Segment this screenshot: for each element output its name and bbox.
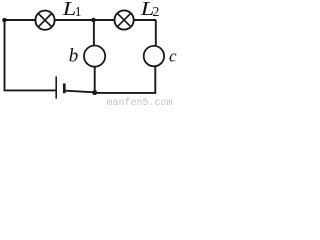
wire left wall — [4, 20, 6, 90]
wire bottom left — [4, 89, 56, 91]
wire top — [5, 19, 157, 21]
lamp L2 — [115, 10, 134, 29]
wire battery to junction — [66, 91, 95, 93]
meter b (circle) — [84, 46, 105, 67]
node bottom junction dot — [92, 90, 97, 95]
wire b riser top — [93, 20, 95, 46]
battery short plate — [63, 84, 66, 94]
svg-text:1: 1 — [75, 5, 82, 20]
lamp L1 — [35, 11, 54, 30]
svg-text:c: c — [169, 47, 177, 66]
node top junction dot — [91, 18, 96, 23]
svg-text:b: b — [69, 46, 79, 67]
svg-text:2: 2 — [152, 5, 159, 20]
svg-text:manfen5.com: manfen5.com — [107, 97, 173, 106]
battery long plate — [55, 76, 57, 98]
wire b riser bottom — [94, 67, 96, 93]
meter c (circle) — [144, 46, 164, 66]
node top-left corner dot — [2, 18, 6, 22]
wire bottom right — [95, 92, 157, 94]
wire right riser bottom — [154, 66, 156, 93]
wire right riser top — [155, 20, 157, 46]
